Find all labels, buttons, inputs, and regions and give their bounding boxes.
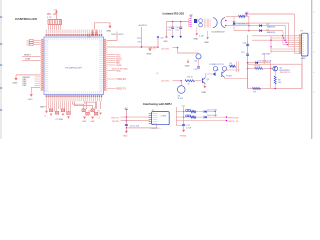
svg-text:GPIO0_RX: GPIO0_RX	[228, 117, 239, 119]
svg-text:GND: GND	[13, 83, 18, 85]
svg-text:4.7K: 4.7K	[47, 17, 52, 19]
svg-text:HEADER 6: HEADER 6	[151, 127, 162, 130]
svg-text:RX0 TX: RX0 TX	[112, 117, 120, 119]
svg-text:GND: GND	[301, 58, 306, 60]
svg-text:232 GND: 232 GND	[262, 54, 271, 56]
svg-text:GPIO1_TX: GPIO1_TX	[228, 121, 239, 123]
svg-text:PC357: PC357	[226, 75, 232, 77]
svg-text:4.7uF: 4.7uF	[186, 128, 192, 130]
svg-text:0.1u: 0.1u	[167, 30, 171, 32]
svg-text:RESET: RESET	[24, 55, 31, 57]
svg-text:GND: GND	[147, 53, 152, 55]
svg-text:C12: C12	[194, 69, 197, 71]
svg-text:GND: GND	[185, 65, 190, 67]
svg-text:R7 10k: R7 10k	[254, 66, 260, 68]
svg-text:C14: C14	[243, 42, 246, 44]
svg-text:MBR0530: MBR0530	[267, 27, 275, 29]
svg-text:TX0 RX: TX0 RX	[112, 121, 120, 123]
svg-text:GND: GND	[204, 42, 209, 44]
svg-text:TL431: TL431	[178, 98, 183, 100]
svg-text:GND: GND	[123, 136, 128, 138]
svg-text:+5V_ISO: +5V_ISO	[161, 80, 170, 82]
svg-text:D6 LL4148: D6 LL4148	[207, 115, 216, 117]
svg-text:0.1u: 0.1u	[176, 30, 180, 32]
svg-text:OSC1: OSC1	[111, 34, 117, 36]
svg-text:SDA: SDA	[116, 69, 121, 72]
svg-text:C8: C8	[88, 110, 90, 112]
svg-text:RS-232 I/O: RS-232 I/O	[280, 72, 291, 74]
svg-text:R5: R5	[230, 63, 232, 65]
svg-text:D4 SMAJ5.0A: D4 SMAJ5.0A	[259, 59, 272, 62]
svg-text:GND: GND	[193, 39, 198, 41]
svg-text:+5V: +5V	[53, 10, 57, 12]
svg-text:C7 GND: C7 GND	[56, 119, 64, 121]
svg-text:U2 ADM3251E: U2 ADM3251E	[212, 31, 226, 34]
svg-text:TXD0 RX: TXD0 RX	[116, 79, 126, 81]
svg-text:PGND: PGND	[180, 135, 187, 137]
svg-text:VREF: VREF	[116, 65, 122, 67]
svg-text:R9: R9	[253, 92, 255, 94]
svg-text:C16 0.1uF: C16 0.1uF	[130, 126, 140, 128]
svg-text:C9: C9	[97, 110, 99, 112]
svg-text:RP1: RP1	[47, 14, 52, 16]
svg-text:R6 1k: R6 1k	[188, 77, 193, 79]
svg-text:+5V_ISO: +5V_ISO	[161, 48, 170, 50]
svg-text:POWER CKT 5V: POWER CKT 5V	[210, 64, 225, 66]
svg-text:1k: 1k	[188, 84, 190, 86]
svg-text:Interfacing with MPU: Interfacing with MPU	[143, 102, 172, 106]
svg-text:PIC18F8722-I/PT: PIC18F8722-I/PT	[65, 67, 83, 69]
svg-text:GND: GND	[40, 107, 45, 109]
svg-text:+5V: +5V	[137, 42, 141, 44]
svg-text:MBR0530: MBR0530	[267, 32, 275, 34]
svg-text:+SUPPLY: +SUPPLY	[138, 25, 148, 27]
svg-text:OSC2: OSC2	[118, 34, 124, 36]
svg-text:10K: 10K	[53, 14, 58, 16]
svg-text:CONTROLLER: CONTROLLER	[15, 17, 38, 21]
svg-text:0.1uF: 0.1uF	[199, 35, 205, 37]
svg-text:GND: GND	[90, 121, 95, 123]
svg-text:CON6: CON6	[161, 115, 167, 117]
svg-text:+5V_ISO: +5V_ISO	[148, 47, 157, 49]
svg-text:GND: GND	[106, 31, 111, 33]
svg-text:GND: GND	[28, 99, 33, 101]
svg-text:D1 B0530W-7-F: D1 B0530W-7-F	[236, 23, 250, 25]
svg-text:RXD0 TX: RXD0 TX	[116, 89, 126, 91]
svg-text:Isolated RS-232: Isolated RS-232	[163, 11, 185, 15]
svg-text:GND: GND	[163, 41, 168, 43]
svg-text:C15: C15	[241, 52, 244, 54]
svg-text:GND: GND	[82, 121, 87, 123]
svg-text:VCAP: VCAP	[25, 58, 31, 61]
svg-text:10k: 10k	[278, 82, 281, 84]
svg-text:GND: GND	[202, 92, 207, 94]
